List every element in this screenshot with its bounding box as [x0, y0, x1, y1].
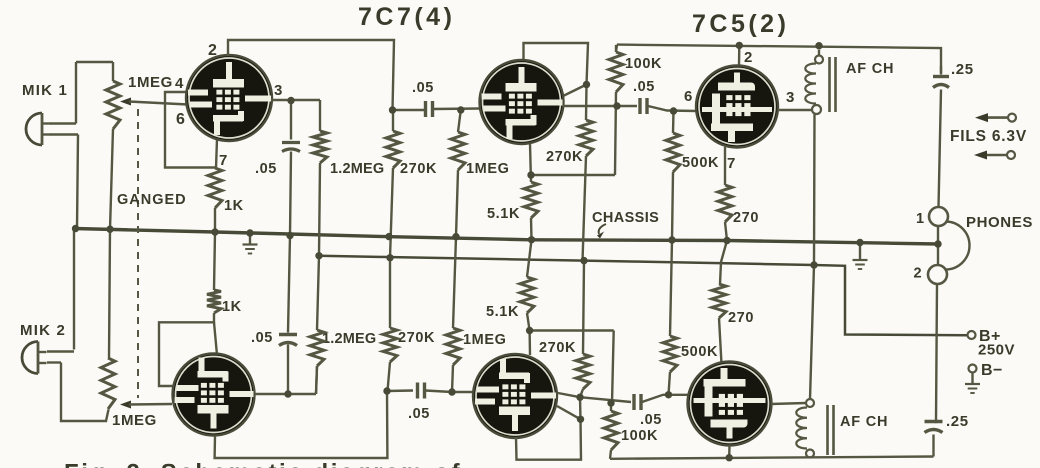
- svg-text:6: 6: [176, 111, 186, 128]
- node junction at 290,235.5: [286, 232, 293, 239]
- wire V3 plate to choke L1: [778, 109, 812, 111]
- svg-text:3: 3: [786, 89, 795, 106]
- svg-text:.25: .25: [951, 61, 974, 78]
- wire R9 bottom / feedback to V2 cathode: [615, 92, 616, 175]
- wire V5 plate bracket: [516, 419, 581, 459]
- wire V6 plate to choke L2: [771, 403, 806, 404]
- node junction at 739.3,45.4: [736, 42, 743, 49]
- wire V5 plate diagonal: [557, 406, 581, 419]
- resistor R14 1.2MEG screen feed V4: [310, 330, 324, 366]
- node junction at 673.5,111: [670, 107, 677, 114]
- capacitor C5 .05 screen bypass: [279, 343, 297, 346]
- svg-text:270K: 270K: [398, 330, 435, 346]
- wire C7 to V6 grid: [642, 395, 688, 402]
- svg-text:1K: 1K: [222, 299, 242, 315]
- node junction at 250,233: [246, 229, 253, 236]
- resistor R6 1MEG grid leak: [451, 132, 465, 170]
- wire V2 plate down: [585, 85, 588, 121]
- wire C8 to bottom bus: [932, 435, 934, 457]
- svg-text:.05: .05: [255, 161, 277, 177]
- wire V2 cathode: [530, 144, 531, 182]
- resistor R16 1MEG grid leak V5: [446, 328, 460, 365]
- terminal B+ 250V: [968, 331, 976, 339]
- node junction at 584,260.6: [580, 257, 587, 264]
- terminal B-: [969, 365, 977, 373]
- filament arrow lower: [980, 154, 1007, 157]
- svg-text:Fig. 2. Schematic diagram of: Fig. 2. Schematic diagram of: [64, 460, 462, 468]
- ground symbol at B-: [971, 373, 973, 384]
- wire phones 2 down to C8: [936, 284, 937, 421]
- node junction at 938,244: [934, 240, 941, 247]
- capacitor C8 .25 output coupling: [925, 420, 943, 423]
- wire to pot R1 top: [76, 61, 113, 63]
- svg-text:1.2MEG: 1.2MEG: [330, 161, 384, 177]
- svg-text:3: 3: [274, 82, 283, 99]
- resistor R7 5.1K cathode V2: [524, 182, 538, 218]
- wire plate node to C7: [580, 397, 631, 402]
- wire R20 leads: [670, 240, 672, 336]
- wire V2 plate bracket: [524, 43, 589, 85]
- svg-text:4: 4: [175, 75, 184, 92]
- svg-text:7: 7: [727, 155, 736, 172]
- wire R6 to ground bus: [456, 170, 458, 237]
- wire V2 plate diagonal: [563, 85, 587, 97]
- svg-text:270: 270: [733, 210, 759, 226]
- node junction at 319,255.8: [315, 252, 322, 259]
- wire R11 to ground bus: [725, 222, 727, 241]
- wire R19 top: [610, 403, 612, 411]
- node junction at 617,106: [613, 102, 620, 109]
- wire C2 to V2 grid: [434, 107, 481, 110]
- svg-text:270K: 270K: [400, 161, 437, 177]
- resistor R13 1K cathode V4: [207, 290, 221, 313]
- svg-text:270K: 270K: [539, 340, 576, 356]
- inductor L2 AF choke coil: [806, 399, 814, 407]
- wire C1 to ground bus: [290, 152, 291, 236]
- node junction at 531.5,239.8: [528, 236, 535, 243]
- wire B+ bus: [319, 256, 968, 335]
- capacitor C7 .05 coupling to V6: [632, 394, 635, 410]
- inductor L1 AF choke coil: [815, 56, 823, 64]
- svg-text:1MEG: 1MEG: [128, 74, 173, 91]
- chassis pointer arrow: [599, 224, 606, 234]
- resistor R18 270K plate load V5: [576, 354, 590, 389]
- svg-text:2: 2: [744, 49, 753, 66]
- wire R12 wiper to V4 grid: [120, 401, 131, 409]
- wire R4 to B+ bus: [319, 163, 320, 256]
- wire grid leak R6 top: [458, 110, 461, 132]
- svg-text:1MEG: 1MEG: [466, 161, 510, 177]
- wire V4 pin4 tie: [159, 313, 214, 386]
- filament arrow upper: [981, 116, 1008, 119]
- wire R5 leads: [392, 110, 394, 131]
- wire to bypass C1: [290, 101, 292, 140]
- wire R17 leads: [527, 240, 532, 277]
- wire pot R12 top to ground bus: [109, 229, 110, 358]
- wire V1 screen line: [271, 99, 320, 101]
- microphone MIK1: [26, 113, 42, 145]
- wire V4 plate to coupling node: [215, 391, 388, 458]
- ground symbol near V1: [249, 233, 251, 244]
- node junction at 110,229.2: [106, 226, 113, 233]
- wire R8 to B+ bus: [583, 156, 587, 261]
- node junction at 580,397.2: [576, 394, 583, 401]
- node junction at 729.2,457.7: [726, 454, 733, 461]
- wire C3 to V3 grid: [648, 106, 697, 111]
- resistor R11 270 cathode V3: [718, 185, 732, 222]
- wire R21 leads: [720, 241, 727, 285]
- wire C6 to V5 grid: [426, 391, 453, 393]
- resistor R15 270K plate load V4: [383, 328, 397, 362]
- resistor R21 270 cathode V6: [712, 284, 726, 318]
- wire bottom B+ feed bus: [610, 457, 934, 459]
- wire MIK1 ground lead: [77, 135, 78, 229]
- node junction at 529.6,330.5: [526, 327, 533, 334]
- wire V1 plate to coupling node: [228, 40, 394, 110]
- potentiometer R12 1MEG: [101, 358, 115, 409]
- wire B+ bus to L2 top: [810, 265, 814, 399]
- svg-text:AF CH: AF CH: [846, 61, 894, 77]
- wire R15 leads: [388, 362, 391, 391]
- wire L1 bottom to B+ bus: [813, 114, 816, 265]
- ganged dashed link: [137, 109, 139, 398]
- wire R10 to ground bus: [672, 172, 673, 240]
- node junction at 456,236.7: [452, 233, 459, 240]
- wire V4 screen line: [255, 393, 316, 395]
- svg-text:.05: .05: [633, 79, 655, 95]
- wire R16 leads: [452, 365, 453, 392]
- wire MIK2 hot to pot R12: [61, 363, 109, 422]
- svg-text:MIK 2: MIK 2: [20, 322, 66, 339]
- node junction at 460.8,110: [457, 106, 464, 113]
- wire R18 leads: [580, 389, 583, 397]
- svg-text:100K: 100K: [625, 56, 662, 72]
- node junction at 814,265: [810, 261, 817, 268]
- tube V3 7C5 output MIK1: [696, 66, 778, 148]
- node junction at 288,394: [284, 390, 291, 397]
- svg-text:7C7(4): 7C7(4): [358, 3, 455, 31]
- wire MIK1 leads: [50, 122, 76, 124]
- svg-text:7: 7: [219, 152, 228, 169]
- resistor R5 270K plate load: [386, 131, 400, 168]
- node junction at 819,45.7: [815, 42, 822, 49]
- node junction at 215,232: [211, 228, 218, 235]
- microphone MIK2: [22, 342, 38, 374]
- node junction at 392.5,110: [389, 106, 396, 113]
- wire chassis ground bus: [74, 229, 938, 245]
- svg-text:.05: .05: [408, 406, 430, 422]
- svg-text:6: 6: [684, 88, 693, 105]
- resistor R8 270K plate load V2: [579, 120, 593, 156]
- resistor R19 100K: [604, 411, 618, 450]
- svg-text:FILS 6.3V: FILS 6.3V: [950, 128, 1027, 145]
- node junction at 727,240.5: [723, 237, 730, 244]
- wire V3 cathode: [724, 147, 726, 185]
- capacitor C4 .25 output coupling: [940, 66, 942, 75]
- wire MIK2 leads: [47, 350, 74, 352]
- capacitor C3 .05 coupling to V3: [638, 98, 641, 114]
- svg-text:100K: 100K: [621, 428, 658, 444]
- svg-text:GANGED: GANGED: [117, 192, 187, 208]
- wire R13 to V4 pin7: [214, 322, 217, 355]
- svg-text:500K: 500K: [682, 155, 719, 171]
- svg-text:270: 270: [728, 310, 754, 326]
- node junction at 387,391: [383, 387, 390, 394]
- svg-text:1MEG: 1MEG: [463, 332, 507, 348]
- svg-text:2: 2: [914, 266, 923, 282]
- svg-text:CHASSIS: CHASSIS: [592, 210, 659, 226]
- svg-text:.25: .25: [946, 413, 969, 430]
- wire V5 plate node up: [579, 397, 582, 419]
- svg-text:500K: 500K: [681, 344, 718, 360]
- resistor R4 1.2MEG screen feed: [313, 131, 327, 163]
- wire coupling node to C6: [387, 389, 413, 392]
- svg-text:1MEG: 1MEG: [112, 412, 157, 429]
- svg-text:MIK 1: MIK 1: [22, 82, 68, 99]
- ground symbol right of bus: [859, 243, 861, 260]
- phones jack terminal 2: [928, 265, 947, 284]
- svg-text:5.1K: 5.1K: [487, 206, 520, 222]
- wire V1 pin4 tie to cathode: [165, 92, 216, 168]
- wire pot R1 bottom to ground bus: [110, 129, 113, 229]
- wire R14 leads: [316, 366, 317, 394]
- capacitor C1 .05 screen bypass: [282, 141, 300, 144]
- wire into V5 grid: [452, 391, 474, 393]
- svg-text:270K: 270K: [546, 149, 583, 165]
- inductor L2 core lines: [826, 405, 829, 455]
- wire C5 to ground bus: [288, 236, 290, 333]
- wire V6 pin2 to bottom bus: [728, 445, 731, 458]
- inductor L1 core lines: [828, 57, 831, 112]
- wire V1 pin7 to R2: [216, 139, 217, 168]
- resistor R2 1K cathode: [208, 168, 222, 208]
- wire top bus to R9: [616, 45, 617, 52]
- node junction at 452,392: [448, 388, 455, 395]
- svg-text:PHONES: PHONES: [966, 214, 1033, 231]
- tube V1 7C7 first stage MIK1: [186, 55, 272, 141]
- wire V5 right to plate node: [558, 393, 580, 397]
- resistor R20 500K grid V6: [663, 336, 677, 372]
- tube V5 7C7 second stage MIK2: [473, 354, 557, 438]
- svg-text:1.2MEG: 1.2MEG: [322, 331, 376, 347]
- wire between phone terminals: [937, 226, 939, 264]
- node junction at 389,236.6: [385, 233, 392, 240]
- svg-text:.05: .05: [251, 330, 273, 346]
- phones body arc: [946, 222, 970, 270]
- wire V2 plate to C3: [563, 105, 637, 107]
- svg-text:B−: B−: [981, 362, 1003, 379]
- node junction at 390,257.8: [386, 254, 393, 261]
- tube V6 7C5 output MIK2: [688, 362, 772, 446]
- wire top B+ feed bus: [617, 45, 941, 73]
- node junction at 672,240: [668, 236, 675, 243]
- node junction at 531,175: [527, 171, 534, 178]
- wire R2 to ground bus: [214, 208, 216, 232]
- svg-text:1: 1: [916, 211, 925, 227]
- wire R9 top lead: [615, 45, 617, 52]
- wire MIK1 hot riser: [75, 62, 77, 124]
- resistor R17 5.1K cathode V5: [520, 277, 534, 313]
- node junction at 586.5,84.5: [583, 81, 590, 88]
- svg-text:250V: 250V: [978, 342, 1015, 359]
- resistor R10 500K grid V3: [666, 133, 680, 172]
- wire ground bus to R13: [214, 232, 215, 290]
- wire feedback to V5 cathode: [612, 331, 614, 404]
- wire MIK2 ground riser: [73, 229, 75, 350]
- resistor R9 100K: [609, 52, 623, 92]
- svg-text:.05: .05: [412, 80, 434, 96]
- wire R7 to ground bus: [530, 218, 533, 240]
- node junction at 75.5,228.5: [72, 225, 79, 232]
- svg-text:7C5(2): 7C5(2): [692, 10, 789, 38]
- capacitor C6 .05 coupling: [416, 383, 419, 399]
- wire C5 bottom lead: [287, 345, 289, 395]
- svg-text:1K: 1K: [224, 198, 244, 214]
- wire R1 wiper to V1 grid: [120, 98, 131, 106]
- tube V4 7C7 first stage MIK2: [173, 354, 255, 436]
- capacitor C2 .05 coupling: [424, 101, 427, 117]
- wire R10 top: [672, 111, 675, 133]
- tube V2 7C7 second stage MIK1: [480, 60, 564, 144]
- node junction at 291,100.5: [287, 97, 294, 104]
- phones jack terminal 1: [929, 207, 948, 226]
- wire C4 to phones tip: [939, 90, 942, 208]
- svg-text:AF CH: AF CH: [840, 414, 888, 430]
- svg-text:.05: .05: [640, 412, 662, 428]
- wire coupling node to C2: [393, 109, 425, 111]
- wire V3 pin2 to top bus: [738, 45, 741, 65]
- node junction at 580.5,419.3: [577, 416, 584, 423]
- svg-text:5.1K: 5.1K: [486, 304, 519, 320]
- node junction at 668.5,394.8: [665, 391, 672, 398]
- potentiometer R1 1MEG: [106, 81, 120, 129]
- wire R19 to bottom bus: [610, 450, 611, 459]
- node junction at 611,403: [607, 399, 614, 406]
- node junction at 860,242.5: [856, 239, 863, 246]
